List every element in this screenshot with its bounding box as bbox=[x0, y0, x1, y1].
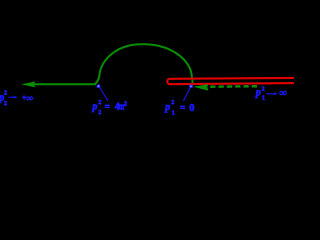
wire: green contour line going to left infinity bbox=[30, 83, 96, 85]
red branch cut (hairpin around real axis) bbox=[167, 78, 294, 84]
svg-text:p: p bbox=[255, 88, 261, 99]
label: p1^2 = 0 (right node) bbox=[164, 99, 194, 116]
svg-text:=: = bbox=[105, 103, 110, 113]
svg-text:p: p bbox=[91, 102, 97, 113]
svg-text:2: 2 bbox=[98, 99, 101, 106]
svg-text:2: 2 bbox=[4, 100, 7, 107]
svg-text:2: 2 bbox=[124, 101, 127, 108]
svg-text:2: 2 bbox=[4, 89, 7, 96]
svg-text:2: 2 bbox=[262, 86, 265, 93]
svg-text:2: 2 bbox=[98, 109, 101, 116]
label: p1^2 -> inf (far right) bbox=[255, 86, 287, 102]
blue pointer line from right dot to label bbox=[183, 87, 190, 101]
svg-text:0: 0 bbox=[189, 103, 194, 114]
blue pointer line from left dot to label bbox=[100, 87, 108, 101]
svg-text:p: p bbox=[164, 102, 170, 113]
node: blue dot at p1^2=0 bbox=[189, 84, 193, 88]
node: blue dot at p2^2=4m^2 bbox=[97, 84, 101, 88]
green arrowhead of dashed segment pointing left bbox=[193, 84, 208, 91]
svg-text:=: = bbox=[180, 104, 185, 114]
svg-text:2: 2 bbox=[171, 99, 174, 106]
green left arrowhead bbox=[21, 82, 35, 88]
svg-text:1: 1 bbox=[262, 95, 265, 102]
svg-text:∞: ∞ bbox=[280, 88, 287, 99]
svg-text:1: 1 bbox=[172, 110, 175, 117]
green contour arc over the complex plane bbox=[95, 44, 193, 85]
label: p2^2 -> +inf (far left) bbox=[0, 89, 33, 107]
svg-text:∞: ∞ bbox=[26, 94, 33, 104]
green dashed contour segment along the cut bbox=[210, 85, 257, 88]
label: p2^2 = 4m^2 (left node) bbox=[91, 99, 127, 116]
